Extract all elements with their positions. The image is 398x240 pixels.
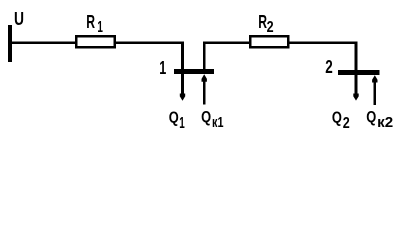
- node bar 1: [174, 69, 214, 74]
- wire QK1 tail: [203, 81, 206, 104]
- svg-text:1: 1: [97, 19, 103, 36]
- wire QK2 tail: [374, 82, 377, 105]
- wire node 1 to R2: [203, 42, 250, 45]
- wire R1 to node 1: [116, 42, 184, 45]
- svg-text:Q: Q: [201, 109, 211, 126]
- svg-text:2: 2: [343, 115, 350, 132]
- resistor R2: [250, 36, 288, 47]
- svg-text:1: 1: [159, 58, 166, 78]
- svg-text:R: R: [86, 12, 95, 32]
- svg-text:2: 2: [267, 19, 274, 36]
- svg-text:1: 1: [179, 115, 185, 132]
- resistor R1: [76, 36, 115, 47]
- wire R2 to node 2: [290, 42, 358, 45]
- svg-text:Q: Q: [169, 109, 179, 126]
- flow arrow QK2 (up into bar): [372, 75, 377, 82]
- node bar 2: [338, 70, 380, 75]
- svg-text:U: U: [14, 9, 24, 29]
- flow arrow Q2 (down): [353, 94, 358, 101]
- wire source to R1: [12, 42, 76, 45]
- flow arrow Q1 (down): [180, 94, 185, 101]
- svg-text:Q: Q: [366, 109, 376, 126]
- wire node 2 vertical drop: [355, 42, 358, 95]
- svg-text:Q: Q: [332, 110, 342, 127]
- svg-text:к1: к1: [212, 114, 224, 131]
- source head bar U: [8, 25, 12, 62]
- flow arrow QK1 (up into bar): [202, 74, 207, 81]
- wire node 1 right vertical (to bar): [203, 42, 206, 75]
- svg-text:к2: к2: [377, 114, 393, 131]
- wire node 1 left vertical drop: [181, 42, 184, 95]
- svg-text:2: 2: [325, 57, 333, 77]
